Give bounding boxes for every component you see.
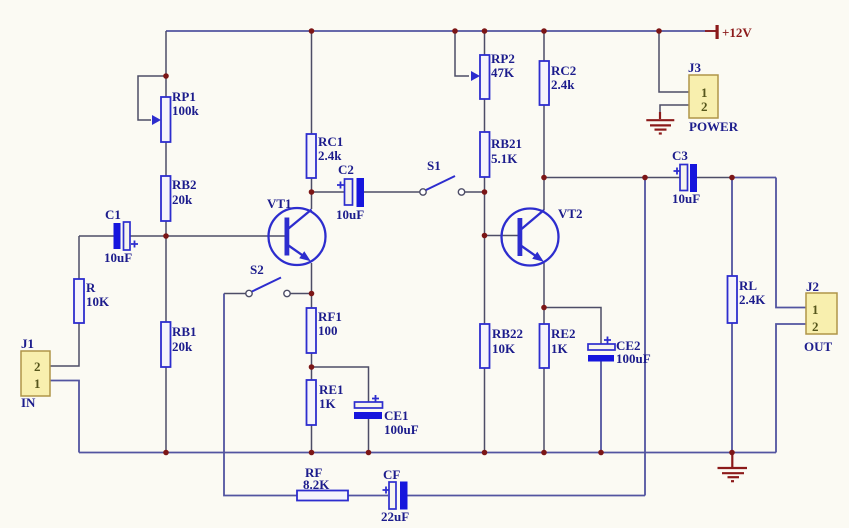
power +12V xyxy=(705,25,752,40)
capacitor C2 xyxy=(336,162,364,222)
wire: RL bottom to ground rail xyxy=(731,323,733,453)
wire: RP1 wiper loop xyxy=(138,76,166,120)
svg-text:47K: 47K xyxy=(491,65,515,80)
wire: CE2 bottom to ground rail xyxy=(600,361,602,453)
svg-text:C1: C1 xyxy=(105,207,121,222)
wire: VT2 emitter down to node E2 xyxy=(543,263,545,308)
svg-text:2: 2 xyxy=(34,359,41,374)
wire: node E1 to RF1 top xyxy=(311,294,313,309)
svg-text:1: 1 xyxy=(812,302,819,317)
resistor RL xyxy=(728,276,767,323)
potentiometer RP2 xyxy=(471,51,515,99)
svg-text:RL: RL xyxy=(739,278,757,293)
svg-text:RB1: RB1 xyxy=(172,324,197,339)
wire: C2 right to S1 left terminal xyxy=(364,191,420,193)
wire: VT1 collector xyxy=(311,192,313,209)
svg-text:10K: 10K xyxy=(492,341,516,356)
wire: right edge down to J2 pin 1 xyxy=(776,178,806,308)
wire: C1 left lead xyxy=(79,235,114,237)
svg-text:22uF: 22uF xyxy=(381,509,409,524)
connector J2 xyxy=(804,279,837,354)
svg-text:1: 1 xyxy=(34,376,41,391)
wire: CE1 bottom to ground rail xyxy=(368,419,370,453)
wire: rail down to RP2 top xyxy=(484,31,486,55)
switch S2 xyxy=(246,262,290,297)
svg-text:R: R xyxy=(86,280,96,295)
wire: S2 right terminal to node E1 xyxy=(290,293,312,295)
wire: VT1 emitter down to node E1 xyxy=(311,263,313,294)
wire: RP2 bottom to RB21 top xyxy=(484,99,486,132)
wire: node B1 to VT1 base xyxy=(166,235,285,237)
resistor RB1 xyxy=(161,322,197,367)
wire: collector node 1 to C2 left xyxy=(312,191,345,193)
svg-text:2: 2 xyxy=(701,99,708,114)
svg-text:2: 2 xyxy=(812,319,819,334)
wire: RB1 bottom to ground rail xyxy=(165,367,167,453)
svg-text:+12V: +12V xyxy=(722,25,752,40)
svg-text:POWER: POWER xyxy=(689,119,739,134)
svg-text:RC1: RC1 xyxy=(318,134,343,149)
resistor RF1 xyxy=(307,308,342,353)
svg-text:RB21: RB21 xyxy=(491,136,522,151)
wire: RB2 bottom to node B1 xyxy=(165,221,167,236)
wire: RB22 bottom to ground rail xyxy=(484,368,486,453)
svg-text:CF: CF xyxy=(383,467,400,482)
svg-text:J2: J2 xyxy=(806,279,819,294)
svg-text:C3: C3 xyxy=(672,148,688,163)
svg-text:IN: IN xyxy=(21,395,36,410)
transistor VT2 xyxy=(502,206,583,266)
svg-text:C2: C2 xyxy=(338,162,354,177)
ground at output rail xyxy=(718,453,748,481)
capacitor CF xyxy=(381,467,409,524)
ground under J3 xyxy=(646,112,674,134)
wire: C1 right lead to node B1 xyxy=(130,235,166,237)
svg-text:20k: 20k xyxy=(172,339,193,354)
wire: RP2 wiper loop from rail xyxy=(455,31,469,76)
wire: RF right lead to CF left xyxy=(348,495,388,497)
wire: node F1 to CE1 top xyxy=(312,367,369,402)
transistor VT1 xyxy=(267,196,326,265)
svg-text:VT2: VT2 xyxy=(558,206,583,221)
wire: rail down to RC2 top xyxy=(543,31,545,61)
wire: RC1 bottom to collector node 1 xyxy=(311,178,313,192)
svg-text:VT1: VT1 xyxy=(267,196,292,211)
wire: R bottom to J1 pin 2 xyxy=(50,323,79,366)
svg-text:100: 100 xyxy=(318,323,338,338)
wire: RC2 bottom to collector node 2 xyxy=(543,105,545,178)
resistor R xyxy=(74,279,110,323)
wire: feedback column down to RF row xyxy=(224,294,297,496)
svg-text:2.4k: 2.4k xyxy=(551,77,575,92)
svg-text:5.1K: 5.1K xyxy=(491,151,518,166)
wire: collector node 2 to C3 left xyxy=(544,177,680,179)
potentiometer RP1 xyxy=(152,89,200,142)
capacitor C3 xyxy=(672,148,700,206)
resistor RE2 xyxy=(540,324,576,368)
svg-text:J3: J3 xyxy=(688,60,702,75)
resistor RB2 xyxy=(161,176,197,221)
resistor RC1 xyxy=(307,134,344,178)
svg-text:10uF: 10uF xyxy=(104,250,132,265)
svg-text:S1: S1 xyxy=(427,158,441,173)
svg-text:100uF: 100uF xyxy=(616,351,651,366)
svg-text:2.4K: 2.4K xyxy=(739,292,766,307)
wire: VT2 base node to base bar xyxy=(485,235,519,237)
svg-text:CE1: CE1 xyxy=(384,408,409,423)
wire: output node to right edge xyxy=(732,177,776,179)
wire: RE1 bottom to ground rail xyxy=(311,425,313,453)
resistor RB21 xyxy=(480,132,522,177)
svg-text:RF1: RF1 xyxy=(318,309,342,324)
wire: S1 right terminal to node RB21 xyxy=(465,191,485,193)
svg-text:1K: 1K xyxy=(319,396,337,411)
svg-text:RP2: RP2 xyxy=(491,51,515,66)
svg-text:2.4k: 2.4k xyxy=(318,148,342,163)
wire: RP1 bottom to RB2 top xyxy=(165,142,167,176)
wire: rail down to RP1 top xyxy=(165,31,167,97)
svg-text:8.2K: 8.2K xyxy=(303,477,330,492)
resistor RE1 xyxy=(307,380,344,425)
svg-text:1K: 1K xyxy=(551,341,569,356)
svg-text:RE2: RE2 xyxy=(551,326,576,341)
wire: RE2 bottom to ground rail xyxy=(543,368,545,453)
svg-text:RP1: RP1 xyxy=(172,89,196,104)
resistor RB22 xyxy=(480,324,523,368)
svg-text:OUT: OUT xyxy=(804,339,833,354)
wire: C1 node down to R top xyxy=(78,236,80,279)
wire: S2 left terminal to feedback column xyxy=(224,293,246,295)
wire: J1 pin 1 to ground rail xyxy=(50,381,79,453)
resistor RF xyxy=(297,465,348,501)
wire: +12V top rail xyxy=(166,30,717,32)
svg-text:RB2: RB2 xyxy=(172,177,197,192)
wire: node E2 to RE2 top xyxy=(543,308,545,325)
svg-text:1: 1 xyxy=(701,85,708,100)
wire: node B1 down to RB1 top xyxy=(165,236,167,322)
svg-text:10uF: 10uF xyxy=(672,191,700,206)
connector J3 xyxy=(688,60,739,134)
wire: VT2 collector xyxy=(543,178,545,211)
svg-text:100k: 100k xyxy=(172,103,200,118)
wire: output node down to RL top xyxy=(731,178,733,277)
switch S1 xyxy=(420,158,465,195)
svg-text:10K: 10K xyxy=(86,294,110,309)
wire: rail to J3 pin 1 xyxy=(659,31,689,92)
capacitor C1 xyxy=(104,207,138,265)
wire: feedback vertical from C3 node down to CF row xyxy=(644,178,646,496)
connector J1 xyxy=(21,336,50,410)
wire: bottom ground rail xyxy=(79,452,776,454)
wire: CF right lead to feedback vertical xyxy=(407,495,645,497)
svg-text:100uF: 100uF xyxy=(384,422,419,437)
capacitor CE1 xyxy=(354,395,419,437)
wire: rail down to RC1 top xyxy=(311,31,313,134)
svg-text:S2: S2 xyxy=(250,262,264,277)
svg-text:J1: J1 xyxy=(21,336,34,351)
resistor RC2 xyxy=(540,61,577,105)
svg-text:RE1: RE1 xyxy=(319,382,344,397)
wire: VT2 base node down to RB22 top xyxy=(484,236,486,325)
svg-text:10uF: 10uF xyxy=(336,207,364,222)
wire: RF1 bottom to node F1 to RE1 top xyxy=(311,353,313,380)
svg-text:RC2: RC2 xyxy=(551,63,576,78)
wire: C3 right to output corner xyxy=(697,177,732,179)
wire: node E2 to CE2 top xyxy=(544,308,601,345)
svg-text:RB22: RB22 xyxy=(492,326,523,341)
capacitor CE2 xyxy=(588,337,651,367)
wire: J3 pin 2 to ground symbol xyxy=(660,105,689,117)
wire: J2 pin 2 to ground rail xyxy=(776,324,806,453)
wire: RB21 bottom through S1 node to VT2 base node xyxy=(484,177,486,236)
svg-text:20k: 20k xyxy=(172,192,193,207)
